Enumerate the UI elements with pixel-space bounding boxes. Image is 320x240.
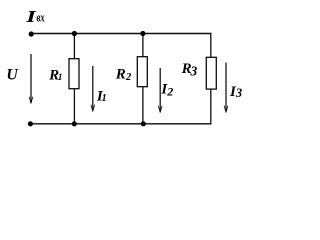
wire R1 branch upper — [73, 34, 75, 60]
resistor R3 — [206, 57, 216, 89]
resistor R2 — [137, 57, 147, 87]
svg-text:1: 1 — [102, 93, 107, 104]
node dot top-left input — [29, 31, 34, 36]
svg-text:U: U — [6, 66, 19, 83]
resistor R1 — [69, 59, 79, 89]
label R1 — [48, 67, 62, 83]
svg-text:R: R — [115, 67, 126, 83]
svg-text:2: 2 — [125, 72, 132, 83]
voltage arrow U — [29, 54, 33, 104]
label I3 — [229, 84, 242, 100]
label I1 — [96, 88, 107, 104]
label R2 — [115, 67, 132, 83]
wire R1 branch lower — [73, 88, 75, 124]
svg-text:3: 3 — [190, 64, 198, 79]
wire R2 branch upper — [142, 34, 144, 58]
current arrow I2 — [158, 68, 162, 113]
wire R3 branch lower (right edge) — [210, 89, 212, 125]
svg-text:1: 1 — [58, 73, 63, 83]
svg-text:I: I — [25, 7, 37, 26]
svg-text:2: 2 — [166, 85, 173, 99]
label R3 — [181, 61, 198, 78]
label I_vx (input current) — [25, 7, 45, 26]
current arrow I1 — [91, 66, 95, 112]
wire R3 branch upper (right edge) — [210, 33, 212, 58]
wire top bus — [29, 33, 211, 35]
wire bottom bus — [29, 123, 212, 125]
label I2 — [160, 82, 173, 99]
wire R2 branch lower — [142, 86, 144, 124]
current arrow I3 — [224, 63, 228, 113]
node dot top R2 — [140, 31, 145, 36]
svg-text:вх: вх — [37, 11, 46, 25]
node dot bottom R2 — [141, 121, 146, 126]
node dot top R1 — [72, 31, 77, 36]
svg-text:3: 3 — [235, 86, 242, 100]
node dot bottom R1 — [72, 121, 77, 126]
node dot bottom-left input — [28, 121, 33, 126]
